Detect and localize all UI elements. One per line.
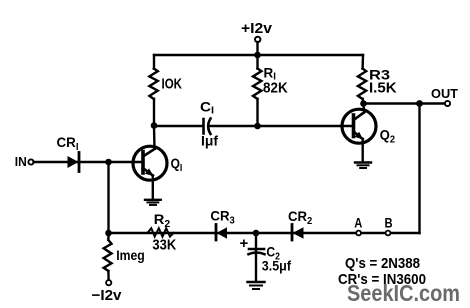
resistor R3: [358, 55, 366, 103]
svg-text:OUT: OUT: [431, 86, 458, 101]
svg-text:3.5μf: 3.5μf: [262, 258, 291, 274]
svg-text:I.5K: I.5K: [369, 80, 397, 97]
svg-text:B: B: [385, 215, 393, 230]
ground C2: [248, 282, 265, 289]
svg-text:CRI: CRI: [57, 134, 79, 153]
diode CR1: [68, 153, 80, 172]
node R1 bottom junction: [254, 123, 261, 130]
ground Q1: [145, 200, 161, 205]
svg-text:IOK: IOK: [162, 76, 183, 93]
node Q1 base junction: [105, 159, 112, 166]
svg-text:Iμf: Iμf: [201, 133, 218, 149]
svg-text:A: A: [354, 215, 362, 230]
svg-text:CR3: CR3: [210, 208, 235, 227]
+12v terminal: [255, 37, 260, 55]
wire right vertical feedback: [418, 104, 420, 234]
wire IN to base: [34, 161, 144, 163]
resistor R2: [148, 228, 174, 236]
node A terminal: [356, 231, 361, 236]
svg-text:+: +: [240, 235, 249, 252]
svg-text:QI: QI: [171, 155, 183, 174]
wire collector to OUT: [364, 102, 446, 104]
svg-text:82K: 82K: [263, 80, 288, 97]
resistor R1: [253, 55, 261, 126]
svg-text:Q2: Q2: [380, 127, 396, 146]
ground Q2: [355, 163, 371, 169]
svg-text:33K: 33K: [152, 237, 176, 254]
wire top rail: [154, 54, 363, 56]
svg-text:−I2v: −I2v: [92, 287, 123, 304]
svg-text:Q's = 2N388: Q's = 2N388: [345, 255, 420, 272]
node bottom-left junction: [105, 230, 112, 237]
transistor Q1: [133, 126, 167, 199]
wire C1 left segment: [154, 125, 203, 127]
svg-text:R2: R2: [154, 211, 171, 230]
node Q2 collector junction: [360, 100, 367, 107]
resistor 10K: [149, 55, 157, 126]
svg-text:IN: IN: [15, 154, 27, 169]
diode CR2: [292, 225, 304, 241]
wire base junction down: [107, 162, 109, 233]
capacitor C2: [249, 233, 265, 281]
transistor Q2: [342, 104, 376, 163]
-12v terminal: [106, 280, 111, 285]
IN terminal: [28, 159, 33, 164]
svg-text:CI: CI: [200, 99, 214, 117]
node B terminal: [386, 231, 391, 236]
node Q1 collector junction: [151, 122, 158, 129]
svg-text:Imeg: Imeg: [116, 247, 145, 263]
node junction +12v rail: [254, 52, 261, 59]
capacitor C1: [204, 119, 354, 135]
node OUT branch junction: [416, 100, 423, 107]
node C2 junction: [253, 230, 260, 237]
diode CR3: [216, 225, 227, 241]
svg-text:+I2v: +I2v: [241, 20, 273, 37]
resistor 1meg: [104, 233, 112, 280]
wire bottom rail: [109, 232, 420, 234]
svg-text:SeekIC.com: SeekIC.com: [347, 280, 460, 306]
OUT terminal: [445, 101, 450, 106]
